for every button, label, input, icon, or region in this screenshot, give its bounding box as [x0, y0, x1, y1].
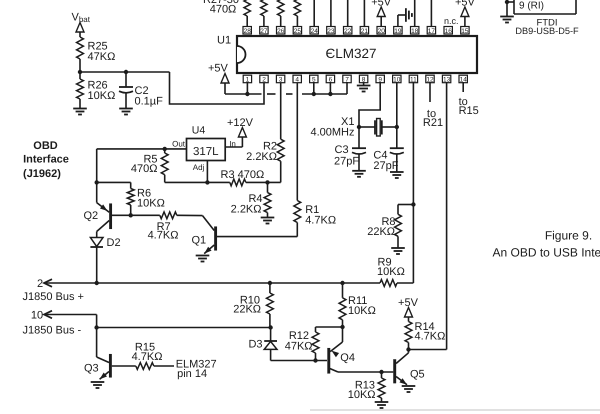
svg-text:4.7KΩ: 4.7KΩ [415, 331, 446, 343]
svg-text:Q4: Q4 [340, 352, 355, 364]
svg-text:26: 26 [277, 28, 285, 35]
svg-text:+12V: +12V [227, 117, 254, 129]
svg-text:47KΩ: 47KΩ [285, 340, 313, 352]
svg-text:27: 27 [260, 28, 268, 35]
svg-text:pin 14: pin 14 [177, 368, 207, 380]
svg-text:10KΩ: 10KΩ [137, 197, 165, 209]
svg-text:47KΩ: 47KΩ [88, 51, 116, 63]
svg-text:4.7KΩ: 4.7KΩ [305, 214, 336, 226]
svg-text:4: 4 [295, 77, 299, 84]
svg-text:2.2KΩ: 2.2KΩ [231, 203, 262, 215]
svg-text:16: 16 [445, 28, 453, 35]
svg-text:21: 21 [361, 28, 369, 35]
svg-text:2: 2 [37, 278, 43, 290]
svg-text:Figure 9.: Figure 9. [545, 229, 592, 243]
svg-text:+5V: +5V [455, 0, 476, 9]
svg-text:4.00MHz: 4.00MHz [310, 127, 354, 139]
svg-text:Adj: Adj [193, 163, 205, 172]
svg-text:R15: R15 [459, 105, 479, 117]
svg-text:D2: D2 [107, 237, 121, 249]
svg-text:0.1µF: 0.1µF [135, 96, 164, 108]
svg-text:28: 28 [244, 28, 252, 35]
svg-text:ЄLM327: ЄLM327 [326, 46, 377, 61]
svg-text:18: 18 [411, 28, 419, 35]
svg-text:22KΩ: 22KΩ [367, 226, 395, 238]
svg-text:470Ω: 470Ω [210, 4, 237, 16]
svg-text:3: 3 [279, 77, 283, 84]
svg-text:+5V: +5V [208, 63, 229, 75]
svg-text:10: 10 [31, 310, 43, 322]
svg-text:19: 19 [394, 28, 402, 35]
svg-text:470Ω: 470Ω [131, 163, 158, 175]
svg-text:Q1: Q1 [192, 234, 207, 246]
svg-text:2.2KΩ: 2.2KΩ [246, 151, 277, 163]
svg-text:R21: R21 [423, 117, 443, 129]
svg-text:+5V: +5V [398, 297, 419, 309]
svg-text:15: 15 [461, 28, 469, 35]
svg-text:(J1962): (J1962) [23, 168, 61, 180]
svg-text:J1850 Bus -: J1850 Bus - [23, 325, 82, 337]
svg-text:22KΩ: 22KΩ [233, 304, 261, 316]
svg-text:25: 25 [294, 28, 302, 35]
svg-text:24: 24 [311, 28, 319, 35]
svg-text:22: 22 [344, 28, 352, 35]
svg-text:Out: Out [172, 140, 186, 149]
svg-text:n.c.: n.c. [444, 16, 459, 26]
svg-text:27pF: 27pF [373, 160, 398, 172]
svg-text:23: 23 [327, 28, 335, 35]
svg-text:Q5: Q5 [410, 369, 425, 381]
svg-text:U1: U1 [217, 35, 231, 47]
svg-text:D3: D3 [248, 339, 262, 351]
svg-text:C3: C3 [335, 144, 349, 156]
svg-text:Interface: Interface [23, 154, 69, 166]
svg-text:9 (RI): 9 (RI) [519, 1, 544, 12]
svg-text:17: 17 [428, 28, 436, 35]
svg-text:R3 470Ω: R3 470Ω [221, 169, 265, 181]
svg-text:Q3: Q3 [84, 362, 99, 374]
svg-text:10KΩ: 10KΩ [348, 389, 376, 401]
svg-text:10KΩ: 10KΩ [348, 305, 376, 317]
svg-text:+5V: +5V [371, 0, 392, 9]
svg-text:DB9-USB-D5-F: DB9-USB-D5-F [515, 26, 579, 36]
svg-text:An OBD to USB Interfa: An OBD to USB Interfa [493, 245, 600, 259]
svg-text:Q2: Q2 [84, 210, 99, 222]
svg-text:27pF: 27pF [334, 156, 359, 168]
svg-text:317L: 317L [193, 146, 219, 158]
svg-text:4.7KΩ: 4.7KΩ [148, 230, 179, 242]
svg-text:J1850 Bus +: J1850 Bus + [23, 291, 84, 303]
svg-text:U4: U4 [192, 125, 206, 137]
svg-text:OBD: OBD [33, 140, 58, 152]
svg-text:20: 20 [378, 28, 386, 35]
svg-text:4.7KΩ: 4.7KΩ [132, 351, 163, 363]
svg-text:2: 2 [262, 77, 266, 84]
svg-text:10KΩ: 10KΩ [377, 266, 405, 278]
svg-text:10KΩ: 10KΩ [88, 90, 116, 102]
